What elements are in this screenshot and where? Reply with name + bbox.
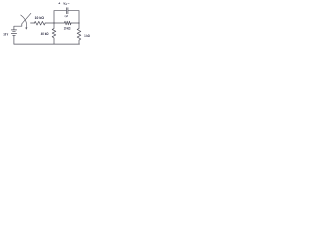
node C junction dot xyxy=(78,22,79,23)
resistor R2 zigzag xyxy=(64,21,71,25)
wire R1 to node B xyxy=(45,20,64,27)
capacitor branch top wire left xyxy=(54,7,66,14)
wire switch to R1 xyxy=(31,20,35,27)
svg-text:1 μF: 1 μF xyxy=(65,14,68,18)
battery V1 plates xyxy=(11,26,16,33)
wire R2 to right rail xyxy=(71,20,79,27)
resistor R1 zigzag xyxy=(34,21,45,25)
capacitor branch left vertical xyxy=(51,11,58,23)
svg-text:1 kΩ: 1 kΩ xyxy=(84,34,90,38)
svg-text:+: + xyxy=(58,2,60,6)
capacitor C1 left plate xyxy=(63,8,70,14)
bottom rail wire xyxy=(14,41,80,48)
capacitor C1 right plate xyxy=(64,8,71,14)
resistor R3 vertical zigzag xyxy=(52,23,56,44)
switch blade xyxy=(22,13,31,23)
node B junction dot xyxy=(53,22,54,23)
svg-text:10 kΩ: 10 kΩ xyxy=(35,16,45,20)
battery V1 top lead xyxy=(14,24,22,30)
battery V1 bottom lead xyxy=(10,35,17,44)
svg-text:10 kΩ: 10 kΩ xyxy=(64,26,71,30)
switch arrowhead xyxy=(26,27,28,29)
svg-text:o: o xyxy=(66,3,68,6)
svg-text:40 kΩ: 40 kΩ xyxy=(41,32,49,36)
svg-text:−: − xyxy=(68,1,70,5)
capacitor branch top wire right xyxy=(68,7,79,14)
resistor R4 vertical zigzag xyxy=(77,23,81,44)
right rail upper xyxy=(76,11,83,23)
svg-text:10 V: 10 V xyxy=(3,32,8,36)
switch arrow arc xyxy=(21,15,27,28)
